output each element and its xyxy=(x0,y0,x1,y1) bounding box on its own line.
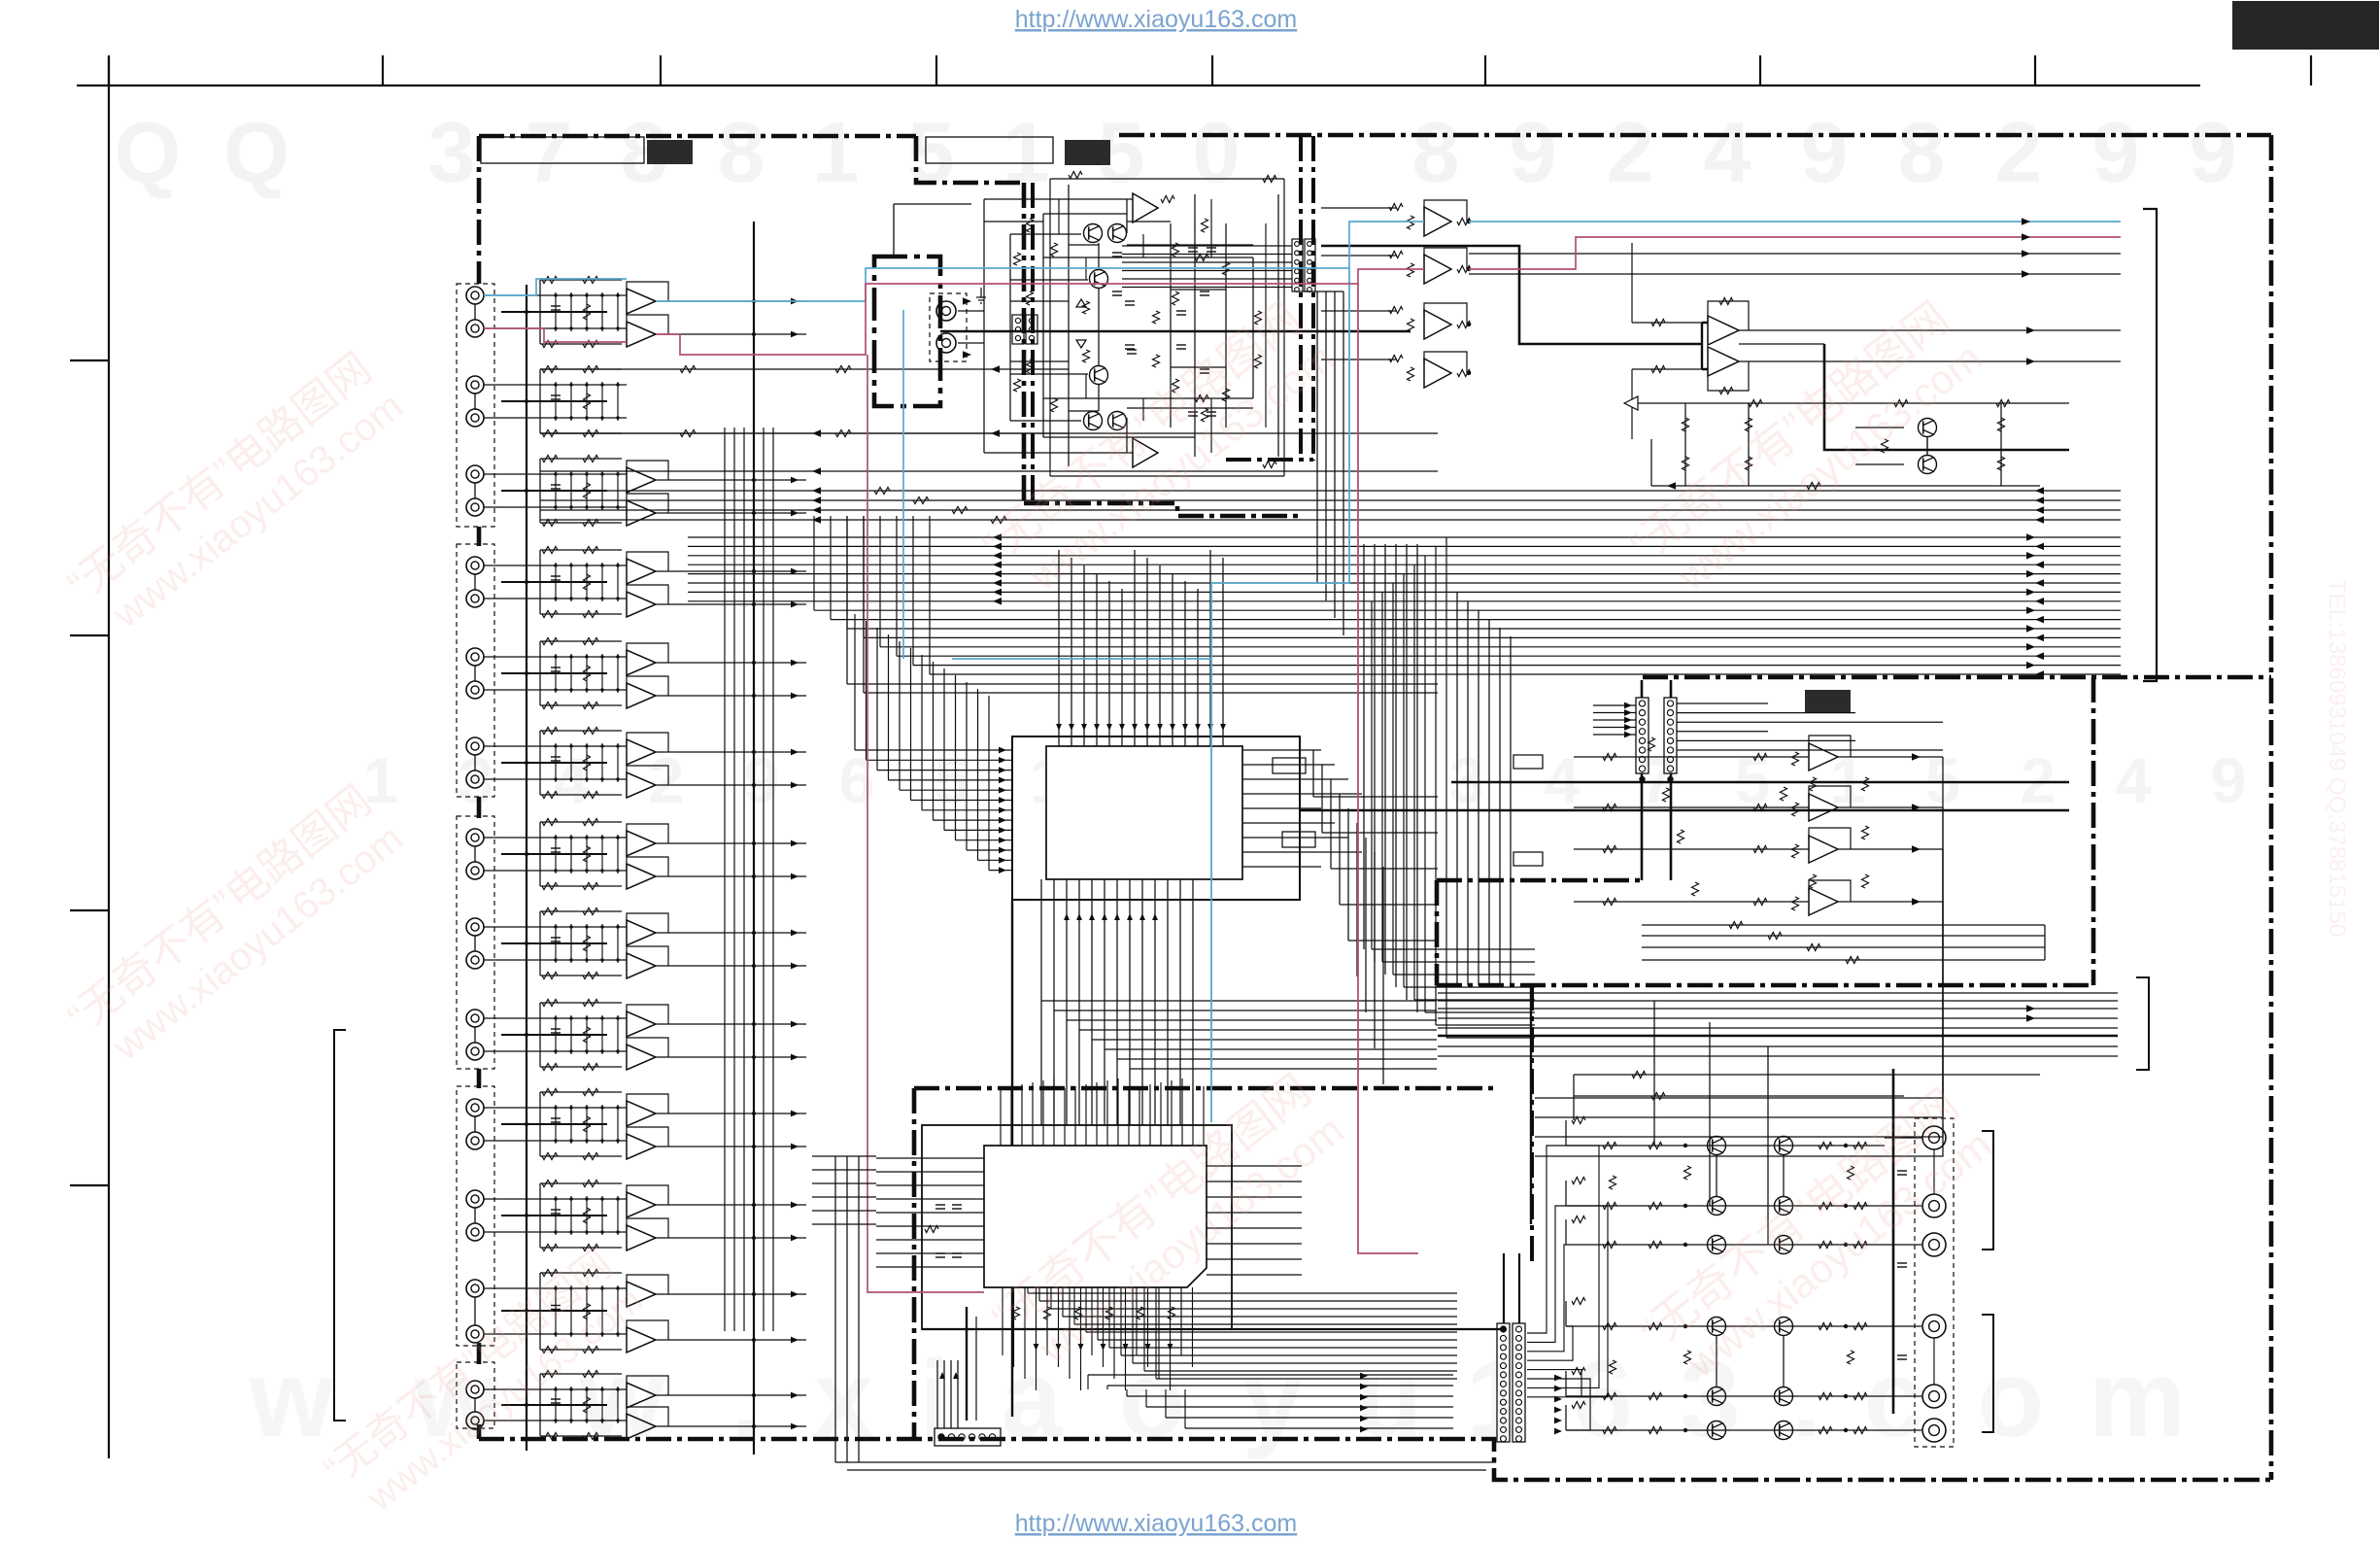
op-amp pair 9 xyxy=(627,1011,656,1037)
output driver row 2 xyxy=(1566,1205,1885,1207)
RC filter cluster 11 xyxy=(527,1198,627,1200)
output jack connectors xyxy=(1922,1126,1946,1149)
bold mid rails xyxy=(1451,781,2069,783)
dash-dot boundary around right mid connector xyxy=(1437,878,1644,883)
headphone block 2x3 pin header xyxy=(1012,315,1024,344)
svg-text:9: 9 xyxy=(2092,104,2140,200)
input connector pair 3 xyxy=(466,465,484,483)
svg-text:2: 2 xyxy=(649,744,685,816)
long bottom rails xyxy=(835,1461,1496,1463)
grid heavy vertical rail xyxy=(1892,1069,1895,1414)
twin strip bold risers xyxy=(1503,1253,1505,1323)
svg-text:9: 9 xyxy=(1801,104,1849,200)
op-amp outputs 9 xyxy=(656,1023,806,1025)
ground link wire pair 6 xyxy=(501,762,607,764)
output driver row 5 xyxy=(1566,1395,1885,1397)
svg-text:3: 3 xyxy=(1449,744,1485,816)
input connector pair 12 xyxy=(466,1280,484,1297)
return signal rails upper xyxy=(540,490,2121,492)
headphone block second screen dash line xyxy=(1031,183,1035,503)
RC filter cluster 12 xyxy=(527,1287,627,1289)
IC2 right pins xyxy=(1207,1165,1302,1167)
input connector pair 10 xyxy=(466,1099,484,1116)
IC1 top pins xyxy=(1058,680,1060,746)
op-amp outputs 3 xyxy=(656,479,806,481)
faint letters bottom row xyxy=(248,1338,2185,1459)
svg-text:0: 0 xyxy=(1193,104,1241,200)
RC filter cluster 7 xyxy=(527,837,627,839)
headphone block transistor Q mid-bottom xyxy=(1090,366,1108,385)
headphone block 2x6 pin header right xyxy=(1292,239,1303,291)
headphone block capacitors xyxy=(1112,252,1122,254)
ground link wire pair 8 xyxy=(501,942,607,944)
bold feed into headphone block xyxy=(940,330,947,333)
bus rows descending at right of center xyxy=(1445,537,1447,1038)
op-amp outputs 13 xyxy=(656,1394,806,1396)
RC filter cluster 2 xyxy=(527,384,627,386)
output driver row 3 xyxy=(1566,1244,1885,1246)
bus corner up to top block xyxy=(879,516,881,647)
op-amp outputs 8 xyxy=(656,932,806,934)
op-amp pair 10 xyxy=(627,1101,656,1126)
ground link wire pair 10 xyxy=(501,1123,607,1125)
IC1 bottom pin arrows xyxy=(1064,913,1070,920)
bias transistor pair right xyxy=(1919,419,1937,437)
input connector pair 6 xyxy=(466,737,484,755)
misc left-bottom verticals xyxy=(834,1156,836,1462)
left border tick marks xyxy=(70,360,109,361)
svg-text:http://www.xiaoyu163.com: http://www.xiaoyu163.com xyxy=(1015,1510,1297,1537)
arrows into bottom connector strip xyxy=(1360,1373,1368,1380)
svg-text:w: w xyxy=(248,1338,334,1459)
staircase IC2 to bottom connector strip xyxy=(1027,1287,1029,1293)
bus corner up to top block xyxy=(846,516,848,629)
svg-text:4: 4 xyxy=(1545,744,1581,816)
IC1 left edge bold extension xyxy=(1011,900,1013,1417)
blue mid descent xyxy=(952,268,1349,659)
IC1 body xyxy=(1046,746,1242,879)
monitor output lines right arrows xyxy=(1739,329,2121,331)
vertical bundle right of IC1 xyxy=(1363,544,1365,949)
arrows into right block xyxy=(1554,1375,1562,1382)
strip bold stubs xyxy=(1641,680,1644,698)
output jack dashed box xyxy=(1915,1118,1954,1447)
label box top center outline xyxy=(926,137,1053,163)
dash-dot top center block bottom xyxy=(1024,503,1302,516)
dash-dot mid boundary right of headphone block xyxy=(1643,675,2271,680)
headphone block transistor pair top xyxy=(1084,224,1103,243)
RC filter cluster 4 xyxy=(527,565,627,566)
bottom connector twin strip xyxy=(1497,1323,1510,1442)
RC filter cluster 6 xyxy=(527,745,627,747)
op-amp pair 12 xyxy=(627,1282,656,1307)
IC1 to lower-right corner bundle xyxy=(1041,1000,1437,1002)
op-amp outputs 5 xyxy=(656,662,806,664)
dash-dot twin screen lines top center block right xyxy=(1299,136,1303,461)
op-amp pair 3 xyxy=(627,467,656,493)
ground link wire pair 9 xyxy=(501,1034,607,1036)
pre-boundary horizontal mesh xyxy=(1642,924,2045,926)
RC filter cluster 1 xyxy=(527,294,627,296)
op-amp pair 7 xyxy=(627,831,656,856)
ground link wire pair 13 xyxy=(501,1404,607,1406)
IC1 bottom pins xyxy=(1040,879,1042,1125)
IC1 corner links to right xyxy=(1312,750,1314,797)
headphone block bottom op-amp U31b xyxy=(1133,438,1158,467)
output brackets xyxy=(1982,1131,1993,1250)
op-amp outputs 1 xyxy=(656,300,806,302)
big op-amp pair right xyxy=(1708,316,1739,345)
red right channel wire xyxy=(484,328,627,342)
bracket right mid lower xyxy=(2136,977,2149,1070)
RC filter cluster 5 xyxy=(527,656,627,658)
grid row links xyxy=(1716,1154,1717,1197)
IC2 top pins xyxy=(1000,1103,1002,1146)
big op-amp input lines xyxy=(1632,322,1708,324)
svg-text:4: 4 xyxy=(1704,104,1751,200)
corner black box top right xyxy=(2232,1,2379,50)
left column thick ground bus vertical xyxy=(526,285,527,1451)
svg-text:6: 6 xyxy=(1573,1338,1633,1459)
op-amp pair 1 xyxy=(627,289,656,314)
dash-dot link to twin lines xyxy=(1226,458,1313,462)
op-amp outputs 7 xyxy=(656,842,806,844)
IC2 bottom pins xyxy=(1002,1287,1003,1355)
op-amp outputs 11 xyxy=(656,1204,806,1206)
headphone block transistor Q mid-top xyxy=(1090,270,1108,289)
input connector pair 2 xyxy=(466,376,484,394)
op-amp outputs 6 xyxy=(656,751,806,753)
input connector pair 13 xyxy=(466,1381,484,1398)
op-amp outputs 4 xyxy=(656,570,806,572)
IC2 bottom connector 6p xyxy=(935,1428,1001,1446)
bus corner up to top block xyxy=(830,516,832,620)
left column bottom bracket xyxy=(334,1030,346,1421)
headphone block right caps xyxy=(1188,247,1198,249)
input connector pair 11 xyxy=(466,1190,484,1208)
extra bus rows lower xyxy=(847,683,1438,685)
headphone block top op-amp U31a xyxy=(1133,193,1158,223)
svg-text:7: 7 xyxy=(526,104,573,200)
IC2 bottom pin arrows xyxy=(1034,1344,1039,1351)
RC filter cluster 10 xyxy=(527,1107,627,1109)
page border top line xyxy=(77,85,2200,86)
op-amp pair 6 xyxy=(627,739,656,765)
left column main signal bus vertical xyxy=(753,222,755,1455)
page border left line xyxy=(108,57,110,1458)
op-amp outputs 12 xyxy=(656,1293,806,1295)
svg-text:2: 2 xyxy=(1607,104,1654,200)
dash-dot boundary left vertical xyxy=(477,136,482,284)
left column vertical bus lines xyxy=(724,428,726,1331)
svg-text:o: o xyxy=(1978,1338,2044,1459)
input connector pair 9 xyxy=(466,1010,484,1027)
ground link wire pair 7 xyxy=(501,853,607,855)
dash-dot right boundary vertical xyxy=(2269,135,2274,1480)
dash-dot bottom center block boundary xyxy=(914,1086,1496,1091)
central descent bundle extension xyxy=(1456,593,1458,985)
output driver row 1 xyxy=(1566,1145,1885,1147)
arrows into strip xyxy=(1593,704,1636,706)
mid labels xyxy=(1513,755,1543,769)
ground symbol near jack xyxy=(976,288,986,303)
headphone block wiring verticals xyxy=(983,199,985,453)
headphone block transistor pair bottom xyxy=(1084,412,1103,430)
IC2 left pins xyxy=(876,1157,984,1159)
headphone block frame rails xyxy=(1050,178,1284,180)
black label box right middle xyxy=(1805,690,1851,712)
IC2 body xyxy=(984,1146,1207,1287)
bus corner up to top block xyxy=(863,516,865,637)
ground link wire pair 3 xyxy=(501,490,607,492)
faint page number digits top row xyxy=(115,104,2237,200)
headphone jack connector circles xyxy=(936,301,956,321)
cross links to monitor op-amps xyxy=(1574,756,1739,758)
row feeds from left column to bottom ICs xyxy=(812,1155,876,1157)
mid-right resistor bank xyxy=(1781,787,1787,801)
grid heavy left rail xyxy=(1530,985,1532,1224)
svg-text:.: . xyxy=(1791,1338,1821,1459)
main bus rows to right area xyxy=(688,536,2121,538)
op-amp pair 13 xyxy=(627,1383,656,1408)
right top op-amp feedback loops xyxy=(1424,200,1467,222)
svg-text:2: 2 xyxy=(1995,104,2043,200)
svg-text:2: 2 xyxy=(2021,744,2057,816)
svg-text:9: 9 xyxy=(744,744,780,816)
top feeds of grid xyxy=(1574,1074,2040,1076)
blue arrow marks xyxy=(963,297,971,305)
staircase second tier to strip xyxy=(1087,1375,1089,1389)
svg-text:9: 9 xyxy=(1510,104,1557,200)
input connector pair 7 xyxy=(466,829,484,846)
mid-right monitor op-amps xyxy=(1809,743,1838,770)
IC2 connector risers xyxy=(936,1360,938,1428)
op-amp pair 4 xyxy=(627,559,656,584)
op-amp pair 5 xyxy=(627,650,656,675)
black label box top left xyxy=(647,140,693,164)
op-amp outputs 10 xyxy=(656,1113,806,1114)
blue left channel wire xyxy=(484,279,627,295)
svg-text:Q: Q xyxy=(115,104,181,200)
dash-dot top center block left side xyxy=(1022,183,1027,503)
grid inter-row resistors xyxy=(1684,1166,1691,1180)
svg-text:TEL:13860931049 QQ:378815150: TEL:13860931049 QQ:378815150 xyxy=(2324,579,2350,937)
headphone block diodes xyxy=(1076,299,1086,307)
feeder verticals to transistor grid xyxy=(1653,1001,1655,1146)
top block to header wires xyxy=(1122,245,1292,247)
drop bundle from header to bus band xyxy=(1316,291,1318,583)
svg-text:Q: Q xyxy=(223,104,289,200)
red wire drop mid-left xyxy=(867,355,984,1292)
plain filter row lines xyxy=(540,368,1069,370)
right top op-amp 3 xyxy=(1424,310,1451,339)
IC1 pin boundary rectangle xyxy=(1012,736,1300,900)
IC1 right pins xyxy=(1242,749,1321,751)
input connector pair 5 xyxy=(466,648,484,666)
right top op-amp 1 xyxy=(1424,207,1451,236)
dash-dot top boundary right segment xyxy=(1119,133,2271,138)
grid caps xyxy=(1897,1170,1907,1172)
top border tick marks xyxy=(108,55,110,86)
ground link wire pair 1 xyxy=(501,311,607,313)
right top op-amp 2 xyxy=(1424,255,1451,284)
headphone block resistors xyxy=(1027,219,1034,232)
ground link wire pair 4 xyxy=(501,581,607,583)
dash-dot right bottom block top boundary xyxy=(1437,983,2093,988)
input connector pair 1 xyxy=(466,287,484,304)
faint digits middle row xyxy=(363,744,2247,816)
bus corner up to top block xyxy=(813,516,815,610)
svg-text:http://www.xiaoyu163.com: http://www.xiaoyu163.com xyxy=(1015,6,1297,33)
svg-text:9: 9 xyxy=(2190,104,2237,200)
headphone block center bold rail xyxy=(947,330,1411,333)
big op-amp feedback xyxy=(1708,301,1749,330)
feeder wires strip to output grid xyxy=(1527,1146,1566,1333)
left column dashed connector group boxes xyxy=(457,284,494,527)
svg-text:m: m xyxy=(2089,1338,2186,1459)
mid connector strip pair xyxy=(1636,698,1649,773)
svg-text:1: 1 xyxy=(812,104,860,200)
op-amp pair 8 xyxy=(627,920,656,945)
right top op-amp 4 xyxy=(1424,359,1451,388)
headphone block wiring horizontals xyxy=(984,198,1133,200)
svg-text:6: 6 xyxy=(839,744,875,816)
right bracket for bus rows xyxy=(2143,209,2157,681)
bus corner up to top block xyxy=(929,516,931,674)
faint red vertical text right margin xyxy=(2324,579,2350,937)
RC filter cluster 13 xyxy=(527,1388,627,1390)
output wires to jacks xyxy=(1885,1137,1921,1139)
svg-text:8: 8 xyxy=(718,104,765,200)
header to op-amp input lines xyxy=(1321,207,1397,209)
bus corner up to top block xyxy=(896,516,898,656)
bus corner up to top block xyxy=(912,516,914,666)
input connector pair 8 xyxy=(466,918,484,936)
ground link wire pair 12 xyxy=(501,1310,607,1312)
bold rail into big op-amps xyxy=(1321,246,1702,344)
IC2 pin boundary rectangle xyxy=(922,1125,1232,1329)
ground link wire pair 5 xyxy=(501,672,607,674)
line with open arrow left xyxy=(1624,402,2069,404)
red mid descent xyxy=(1358,284,1418,1253)
dash-dot bottom boundary xyxy=(479,1439,2271,1480)
svg-text:9: 9 xyxy=(2211,744,2247,816)
output driver row 4 xyxy=(1566,1325,1885,1327)
dash-dot boundary top left segment xyxy=(479,134,916,139)
bold block outline rectangle xyxy=(874,257,940,406)
staircase bundle into IC1 left pins xyxy=(854,614,856,750)
IC2 top pin risers xyxy=(1000,1088,1002,1103)
RC filter cluster 9 xyxy=(527,1017,627,1019)
IC2 bold stub verticals xyxy=(966,1307,968,1421)
svg-text:3: 3 xyxy=(428,104,476,200)
dash-dot jog near top center block xyxy=(916,136,1024,183)
svg-text:4: 4 xyxy=(2116,744,2152,816)
input connector pair 4 xyxy=(466,557,484,574)
black label box top center xyxy=(1065,140,1110,165)
blue wire drop mid-left xyxy=(902,310,904,659)
right top op-amp output resistors xyxy=(1457,219,1471,225)
ground link wire pair 2 xyxy=(501,400,607,402)
IC1 top pin feeder verticals xyxy=(1058,550,1060,680)
headphone block extra mesh xyxy=(1043,213,1127,215)
svg-text:8: 8 xyxy=(1898,104,1946,200)
dash-dot left bottom block separator xyxy=(1530,985,1534,1263)
output driver row 6 xyxy=(1566,1429,1885,1431)
RC filter cluster 8 xyxy=(527,926,627,928)
strip outgoing lines right xyxy=(1677,702,1768,704)
label box top left outline xyxy=(481,137,644,163)
IC2 decoupling parts xyxy=(935,1204,945,1206)
bold rail right from big op-amps xyxy=(1824,344,2069,450)
bias resistor ladder xyxy=(1683,418,1689,431)
RC filter cluster 3 xyxy=(527,473,627,475)
svg-text:8: 8 xyxy=(1412,104,1460,200)
op-amp pair 11 xyxy=(627,1192,656,1217)
right mid lower bus rows xyxy=(1438,992,2118,994)
ground link wire pair 11 xyxy=(501,1215,607,1216)
